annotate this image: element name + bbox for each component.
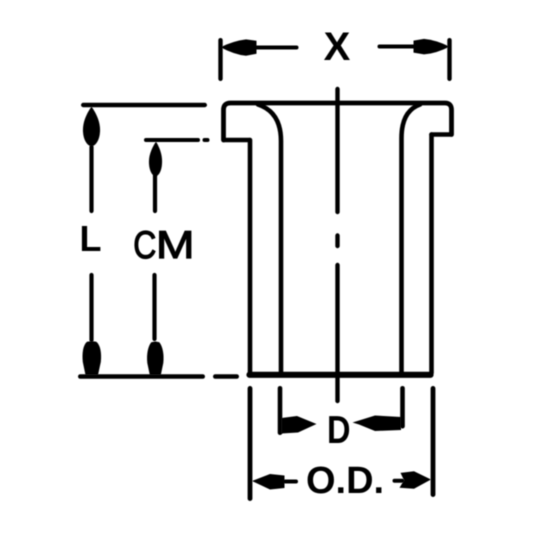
svg-text:M: M [156, 223, 195, 267]
svg-text:C: C [133, 223, 156, 267]
svg-text:O.D.: O.D. [306, 460, 384, 502]
svg-text:L: L [80, 218, 102, 259]
svg-text:X: X [324, 25, 351, 69]
svg-text:D: D [327, 409, 351, 452]
